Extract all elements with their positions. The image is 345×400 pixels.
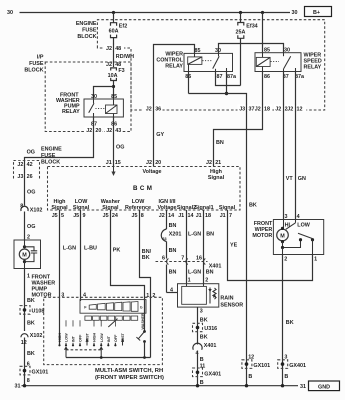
svg-text:BLOCK: BLOCK [77, 34, 96, 40]
svg-text:X102: X102 [30, 207, 43, 213]
svg-text:U316: U316 [204, 326, 217, 332]
switch gang2 armature [108, 319, 117, 327]
svg-text:16: 16 [196, 256, 202, 262]
svg-text:BN: BN [206, 232, 214, 238]
switch pin 4 [83, 293, 86, 299]
washer switch [136, 313, 146, 358]
svg-text:J2: J2 [106, 46, 112, 52]
wire speed relay 86 to J2 18 then BCM J2 21 (BN) [214, 72, 263, 167]
svg-text:High: High [210, 169, 222, 175]
svg-text:GX101: GX101 [253, 363, 270, 369]
svg-text:J5: J5 [52, 213, 58, 219]
node 31 (right) [300, 384, 306, 390]
I/P fuse block dashed outline [45, 62, 131, 132]
junction on 30 rail feeding Ef34 [239, 11, 242, 14]
svg-text:2: 2 [152, 293, 155, 299]
svg-text:87a: 87a [295, 74, 305, 80]
svg-text:J1: J1 [220, 213, 226, 219]
svg-text:OG: OG [27, 149, 35, 155]
wire GN label [298, 176, 306, 182]
svg-text:OG: OG [27, 224, 35, 230]
svg-text:J1: J1 [178, 213, 184, 219]
svg-text:14: 14 [168, 213, 174, 219]
svg-text:31: 31 [15, 384, 21, 390]
fuse F3 10A [108, 68, 125, 99]
pin J5 24 Washer Signal (BCM bottom) [101, 199, 121, 219]
wire speed relay 87 to J2 2 then motor pin 3 (VT) [283, 72, 285, 220]
svg-text:J5: J5 [73, 213, 79, 219]
svg-text:J2: J2 [206, 160, 212, 166]
svg-text:BCM: BCM [133, 185, 154, 192]
svg-text:86: 86 [264, 74, 270, 80]
svg-text:RAIN: RAIN [220, 296, 233, 302]
pin J2 42 [15, 160, 37, 168]
svg-text:85: 85 [195, 48, 201, 54]
wire BCM J1 7 to motor pin 1 (YE) [228, 210, 313, 281]
svg-text:87: 87 [217, 74, 223, 80]
wire BCM J5 8 to switch pin 2 (BN/BK) [140, 210, 152, 358]
svg-text:BN: BN [169, 248, 177, 254]
svg-text:J2: J2 [255, 106, 261, 112]
svg-text:BK: BK [27, 351, 35, 357]
front washer pump relay [56, 93, 123, 128]
svg-text:L-BU: L-BU [84, 246, 97, 252]
svg-text:WASHER: WASHER [141, 313, 145, 330]
connector X102 (washer pump feed) [20, 203, 42, 213]
svg-text:J2: J2 [17, 162, 23, 168]
low reference arrow inside BCM at J1 15 [111, 167, 115, 177]
svg-text:OG: OG [116, 145, 124, 151]
wire speed relay 85 to 30 rail [262, 13, 264, 53]
svg-text:10A: 10A [108, 73, 118, 79]
switch position labels gang1 (HIGH LOW INT OFF MIST) [58, 332, 90, 342]
ground GX401 (rain sensor) [193, 368, 222, 386]
svg-text:42: 42 [27, 162, 33, 168]
svg-text:X201: X201 [169, 232, 182, 238]
wire control relay 85 to J2 36 (GY) [154, 45, 195, 167]
connector U108 [20, 306, 44, 315]
svg-text:Voltage: Voltage [142, 169, 161, 175]
svg-text:3: 3 [285, 214, 288, 220]
svg-text:FUSE: FUSE [29, 61, 44, 67]
BCM module dashed outline [48, 167, 241, 211]
svg-text:J2: J2 [287, 106, 293, 112]
switch cam box [80, 300, 146, 314]
wire OG label (to J1 15) [27, 190, 35, 196]
svg-text:B: B [200, 357, 204, 363]
pin J3 26 [15, 172, 37, 180]
svg-text:J5: J5 [132, 213, 138, 219]
svg-text:12: 12 [297, 106, 303, 112]
BCM label [133, 185, 154, 192]
svg-text:BLOCK: BLOCK [41, 160, 60, 166]
svg-text:BN: BN [206, 270, 214, 276]
multi-asm switch dashed outline [44, 297, 163, 364]
svg-text:24: 24 [112, 213, 118, 219]
wire control relay 87a drop [226, 72, 228, 94]
switch common bus to pin 2 [66, 356, 151, 359]
fuse Ef2 60A [109, 13, 128, 67]
junction control relay ground bus [225, 92, 228, 95]
pin J3 37 [238, 104, 256, 112]
pin J1 18 Signal1 (BCM bottom) [194, 205, 213, 219]
svg-text:4: 4 [297, 214, 300, 220]
ground GX101 (relay ground wire) [242, 354, 270, 380]
svg-text:8: 8 [141, 213, 144, 219]
wire BCM J1 18 to rain sensor pin 2 (BN) [204, 210, 215, 284]
svg-text:25A: 25A [236, 30, 246, 36]
engine fuse block label [76, 21, 97, 40]
wire VT label [286, 176, 294, 182]
svg-text:J2: J2 [275, 106, 281, 112]
svg-text:(FRONT WIPER SWITCH): (FRONT WIPER SWITCH) [95, 375, 164, 381]
svg-text:OG: OG [27, 190, 35, 196]
svg-text:J2: J2 [106, 128, 112, 134]
svg-text:OFF: OFF [114, 334, 118, 342]
svg-text:87a: 87a [227, 74, 237, 80]
svg-text:BN: BN [169, 270, 177, 276]
svg-text:63: 63 [163, 237, 167, 241]
svg-text:HI: HI [285, 222, 291, 228]
wire 31 ground rail [22, 385, 299, 387]
svg-text:18: 18 [205, 213, 211, 219]
svg-text:37: 37 [249, 106, 255, 112]
svg-text:BLOCK: BLOCK [24, 68, 43, 74]
connector X401 (rain sensor ground) [193, 343, 216, 386]
pin J1 7 Signal (BCM bottom) [219, 205, 236, 219]
svg-text:2: 2 [27, 234, 30, 240]
svg-text:FUSE: FUSE [82, 28, 97, 34]
pin J2 14 IGN I/II Voltage (BCM bottom) [157, 199, 176, 219]
svg-text:J5: J5 [103, 213, 109, 219]
svg-text:GX401: GX401 [204, 371, 221, 377]
junction washer relay feed [112, 85, 115, 88]
svg-text:J2: J2 [146, 160, 152, 166]
svg-text:RELAY: RELAY [165, 64, 183, 70]
wire rain sensor pin 3 to ground (BK) [198, 307, 208, 344]
switch pin 1 [146, 293, 149, 299]
svg-text:RELAY: RELAY [304, 65, 322, 71]
svg-text:3: 3 [61, 293, 64, 299]
svg-text:20: 20 [95, 128, 101, 134]
ground GX101 (washer motor) [20, 362, 48, 384]
svg-text:31: 31 [300, 384, 306, 390]
ground GX401 (wiper motor) [278, 360, 306, 380]
svg-text:18: 18 [264, 106, 270, 112]
svg-text:HIGH: HIGH [58, 332, 62, 342]
pin J1 15 (BCM top) [106, 160, 121, 166]
node 30 (battery rail label left) [7, 10, 13, 16]
wire washer relay 87 to engine fuse block passthrough (OG) [25, 117, 94, 386]
rain sensor pin 4 [170, 287, 173, 293]
svg-text:B: B [248, 374, 252, 380]
junction relay ground [245, 384, 248, 387]
svg-text:36: 36 [155, 106, 161, 112]
svg-text:INT: INT [107, 335, 111, 342]
svg-text:B: B [284, 374, 288, 380]
svg-text:PK: PK [113, 248, 121, 254]
wire BCM J1 14 to rain sensor pin 1 (L-GN) [187, 210, 202, 284]
svg-text:5: 5 [61, 213, 64, 219]
wire OG label (washer relay 86) [116, 145, 124, 151]
wire GY label [156, 132, 164, 138]
wire BK label (below washer motor) [27, 298, 35, 304]
pin J2 21 High Signal (BCM top) [206, 160, 225, 181]
svg-text:GY: GY [156, 132, 164, 138]
svg-text:2: 2 [284, 256, 287, 262]
svg-text:GN: GN [298, 176, 306, 182]
svg-text:FUSE: FUSE [41, 153, 56, 159]
svg-text:J1: J1 [196, 213, 202, 219]
switch position ticks upper [66, 320, 115, 326]
svg-text:L-GN: L-GN [63, 246, 76, 252]
svg-text:F3: F3 [118, 68, 124, 74]
node B+ [305, 7, 332, 17]
wire RD/WH [116, 54, 134, 60]
wire speed relay 87a to J2 12 then motor pin 4 (GN) [295, 72, 297, 220]
svg-text:8: 8 [20, 203, 23, 209]
pin J2 43 (washer relay 86) [105, 127, 122, 135]
svg-text:7: 7 [181, 256, 184, 262]
svg-text:Signal: Signal [208, 175, 225, 181]
wire BCM J5 24 to switch pin 1 (PK) [111, 210, 145, 332]
switch pin 3 [61, 293, 64, 299]
svg-text:MULTI-ASM SWITCH, RH: MULTI-ASM SWITCH, RH [95, 368, 163, 374]
svg-text:6: 6 [162, 256, 165, 262]
switch position labels gang2 (HIGH LOW INT OFF MIST) [93, 332, 126, 342]
svg-text:OFF: OFF [79, 334, 83, 342]
connector U316 [193, 323, 218, 332]
pin J1 14 Signal2 (BCM bottom) [177, 205, 196, 219]
svg-text:21: 21 [215, 160, 221, 166]
pin J2 36 [144, 104, 163, 112]
switch gang wipers and mechanical link [64, 346, 103, 357]
wire OG label above passthrough [27, 149, 35, 155]
multi-asm switch label [95, 368, 164, 381]
wire feed to washer relay pin 30 [94, 87, 114, 100]
svg-text:GX101: GX101 [32, 370, 49, 376]
svg-text:U108: U108 [32, 308, 45, 314]
wiper speed relay [255, 47, 322, 80]
connector X102 (ground side) [21, 331, 43, 346]
fuse Ef34 25A [236, 13, 258, 86]
svg-text:M: M [280, 233, 285, 239]
svg-text:J2: J2 [86, 128, 92, 134]
svg-text:GX401: GX401 [289, 363, 306, 369]
svg-text:LOW: LOW [297, 222, 310, 228]
svg-text:M: M [22, 252, 27, 258]
front wiper motor [252, 214, 323, 262]
wire BCM J5 5 to switch HIGH (L-GN) [60, 210, 77, 345]
wire control relay 87 strap [216, 72, 241, 86]
svg-text:8: 8 [27, 378, 30, 384]
connector X401 inline row [156, 256, 222, 270]
wire control relay 86 drop [188, 72, 190, 94]
pin J2 18 [255, 104, 272, 112]
svg-text:RELAY: RELAY [62, 109, 80, 115]
pin J2 48 (I/P fuse block) [104, 60, 124, 68]
wire BK label (J3 37 ground wire) [249, 203, 257, 209]
pin J2 20 Voltage (BCM top) [142, 160, 161, 175]
svg-text:1: 1 [188, 278, 191, 284]
svg-text:3: 3 [200, 309, 203, 315]
svg-text:9: 9 [83, 213, 86, 219]
svg-text:Ef2: Ef2 [119, 24, 127, 30]
svg-text:L-GN: L-GN [188, 232, 201, 238]
node 30 (right) [292, 10, 298, 16]
wiper control relay [156, 48, 237, 80]
wire ground bus to J3 37 (BK) [189, 94, 247, 386]
svg-text:GND: GND [318, 384, 330, 390]
svg-text:HIGH: HIGH [93, 332, 97, 342]
svg-text:INT: INT [72, 335, 76, 342]
pin J5 5 High Signal (BCM bottom) [51, 199, 68, 219]
svg-text:12: 12 [21, 340, 27, 346]
svg-text:30: 30 [284, 47, 290, 53]
junction on 30 rail feeding Ef2 [112, 11, 115, 14]
pin J2 12 [287, 104, 306, 112]
svg-text:4: 4 [170, 287, 173, 293]
wire BCM J2 14 to rain sensor pin 4 (BN) [161, 210, 181, 293]
svg-text:60A: 60A [109, 29, 119, 35]
wire 30 feed bus (Ef34 to both relays) [219, 44, 284, 54]
switch pin 2 [152, 293, 155, 299]
node GND [309, 381, 340, 391]
I/P fuse block label [24, 55, 44, 74]
junction motor ground [281, 384, 284, 387]
pin J2 20 (washer relay 87) [85, 127, 103, 135]
pin J2 48 (engine fuse block) [104, 44, 124, 52]
wire motor pin 2 to ground (BK) [283, 255, 294, 386]
engine fuse block (top) dashed outline [97, 20, 324, 110]
svg-text:L-GN: L-GN [188, 270, 201, 276]
svg-text:BK: BK [200, 318, 208, 324]
svg-text:1: 1 [314, 256, 317, 262]
svg-text:BK: BK [249, 203, 257, 209]
svg-text:85: 85 [111, 94, 117, 100]
engine fuse block (left) label [41, 147, 62, 166]
switch contact dots row [58, 343, 116, 347]
svg-text:Ef34: Ef34 [246, 23, 257, 29]
rain sensor pin 2 [205, 278, 208, 284]
svg-text:2: 2 [205, 278, 208, 284]
junction rain sensor ground [196, 384, 199, 387]
svg-text:BN: BN [216, 140, 224, 146]
svg-text:SENSOR: SENSOR [220, 303, 243, 309]
svg-text:BK: BK [27, 298, 35, 304]
svg-text:30: 30 [91, 94, 97, 100]
svg-text:Signal: Signal [73, 205, 90, 211]
switch contact strip [85, 316, 138, 320]
svg-text:4: 4 [83, 293, 86, 299]
svg-text:J2: J2 [146, 106, 152, 112]
wire BCM J5 9 to switch pin 4 (L-BU) [81, 210, 97, 301]
svg-text:X102: X102 [30, 333, 43, 339]
pin J2 2 [274, 104, 290, 112]
svg-text:LOW: LOW [100, 333, 104, 342]
svg-text:14: 14 [188, 213, 194, 219]
svg-text:1: 1 [27, 273, 30, 279]
svg-text:30: 30 [292, 10, 298, 16]
svg-text:1: 1 [146, 293, 149, 299]
svg-text:15: 15 [115, 160, 121, 166]
svg-text:30: 30 [7, 10, 13, 16]
svg-text:7: 7 [229, 213, 232, 219]
svg-text:ENGINE: ENGINE [41, 147, 62, 153]
svg-text:J3: J3 [17, 174, 23, 180]
svg-text:VT: VT [286, 176, 294, 182]
svg-text:LOW: LOW [65, 333, 69, 342]
wire BK label (below X102) [27, 351, 35, 357]
pin J5 8 LOW Reference (BCM bottom) [125, 199, 151, 219]
svg-text:BK: BK [27, 321, 35, 327]
svg-text:B: B [200, 380, 204, 386]
svg-text:48: 48 [115, 46, 121, 52]
svg-text:BK: BK [142, 255, 150, 261]
wire OG label above X102 [27, 224, 35, 230]
wire BN label (to J2 21) [216, 140, 224, 146]
svg-text:ENGINE: ENGINE [76, 21, 97, 27]
junction on 30 rail feeding wiper speed relay 85 [261, 11, 264, 14]
svg-text:J2: J2 [106, 62, 112, 68]
wire 30 rail top [20, 12, 291, 14]
switch MIST momentary arrows [86, 338, 125, 345]
junction washer motor ground [23, 384, 26, 387]
svg-text:YE: YE [230, 243, 238, 249]
svg-text:RD/WH: RD/WH [116, 54, 134, 60]
svg-text:Reference: Reference [125, 205, 151, 211]
node 31 (ground rail left) [15, 384, 21, 390]
svg-text:I/P: I/P [37, 55, 44, 61]
svg-text:20: 20 [155, 160, 161, 166]
svg-text:X401: X401 [204, 343, 217, 349]
svg-text:85: 85 [264, 47, 270, 53]
front washer pump motor [14, 234, 55, 298]
rain sensor [178, 284, 244, 309]
svg-text:26: 26 [27, 174, 33, 180]
svg-text:BK: BK [200, 335, 208, 341]
svg-text:BN: BN [169, 223, 177, 229]
svg-text:MOTOR: MOTOR [252, 233, 272, 239]
svg-text:J3: J3 [239, 106, 245, 112]
pin J5 9 LOW Signal (BCM bottom) [73, 199, 90, 219]
wire BK label (below U108) [27, 321, 35, 327]
wire washer relay 86 to BCM J1 15 (OG) [113, 117, 115, 167]
engine fuse block (left passthrough) dashed outline [14, 161, 40, 179]
svg-text:J1: J1 [106, 160, 112, 166]
svg-text:B+: B+ [313, 10, 320, 16]
svg-text:BK: BK [286, 320, 294, 326]
svg-text:43: 43 [115, 128, 121, 134]
rain sensor pin 1 [188, 278, 191, 284]
svg-text:J2: J2 [159, 213, 165, 219]
svg-text:48: 48 [115, 62, 121, 68]
